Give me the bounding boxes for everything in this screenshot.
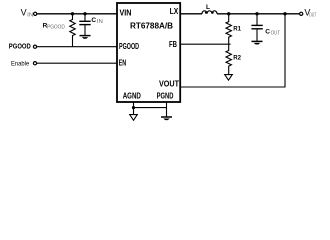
label RPGOOD bbox=[43, 23, 65, 31]
resistor R1 bbox=[226, 14, 231, 44]
label RT6788A/B bbox=[130, 22, 173, 31]
label COUT bbox=[265, 28, 280, 36]
ground COUT bbox=[252, 41, 263, 44]
label VIN bbox=[21, 8, 34, 19]
pin label EN bbox=[119, 59, 127, 68]
inductor L bbox=[202, 11, 217, 14]
ground CIN bbox=[80, 36, 91, 39]
svg-text:AGND: AGND bbox=[123, 92, 141, 101]
label CIN bbox=[91, 17, 103, 25]
wire VIN rail bbox=[37, 13, 117, 15]
op-amp U1 RT6788A/B box bbox=[117, 3, 180, 102]
node junction COUT top bbox=[255, 12, 258, 15]
svg-text:VOUT: VOUT bbox=[159, 79, 179, 88]
svg-text:FB: FB bbox=[169, 40, 177, 49]
svg-text:RT6788A/B: RT6788A/B bbox=[130, 22, 173, 31]
resistor RPGOOD bbox=[70, 14, 75, 47]
ground R2 bbox=[225, 75, 233, 81]
pin label AGND bbox=[123, 92, 141, 101]
node junction CIN top bbox=[83, 12, 86, 15]
terminal VOUT bbox=[300, 12, 303, 15]
label Enable bbox=[11, 60, 30, 67]
wire EN bbox=[37, 62, 117, 64]
wire PGND pin bbox=[166, 102, 168, 117]
svg-text:PGOOD: PGOOD bbox=[119, 42, 139, 51]
svg-text:VIN: VIN bbox=[120, 8, 132, 17]
svg-text:LX: LX bbox=[170, 7, 179, 16]
svg-text:Enable: Enable bbox=[11, 60, 30, 67]
pin label PGOOD bbox=[119, 42, 139, 51]
ground AGND bbox=[130, 115, 138, 121]
capacitor COUT bbox=[251, 14, 262, 41]
label R1 bbox=[233, 26, 241, 33]
terminal VIN bbox=[34, 12, 37, 15]
svg-text:EN: EN bbox=[119, 59, 127, 68]
svg-text:OUT: OUT bbox=[309, 12, 317, 18]
svg-text:IN: IN bbox=[97, 19, 103, 25]
svg-text:L: L bbox=[206, 4, 210, 11]
svg-text:V: V bbox=[21, 8, 27, 18]
label R2 bbox=[233, 54, 241, 61]
capacitor CIN bbox=[79, 14, 90, 35]
svg-text:OUT: OUT bbox=[271, 31, 281, 37]
pin label VIN bbox=[120, 8, 132, 17]
label PGOOD terminal bbox=[9, 44, 31, 51]
wire AGND pin bbox=[133, 102, 135, 115]
wire VOUT pin to rail bbox=[181, 14, 285, 87]
wire PGOOD bbox=[37, 46, 117, 48]
wire VOUT rail bbox=[217, 13, 299, 15]
node junction RPGOOD top bbox=[71, 12, 74, 15]
wire LX to inductor bbox=[181, 13, 202, 15]
pin label PGND bbox=[157, 92, 174, 101]
pin label FB bbox=[169, 40, 177, 49]
ground PGND bbox=[161, 117, 172, 120]
svg-text:C: C bbox=[91, 17, 96, 24]
svg-text:C: C bbox=[265, 28, 270, 35]
pin label VOUT bbox=[159, 79, 179, 88]
resistor R2 bbox=[226, 44, 231, 74]
svg-text:PGOOD: PGOOD bbox=[47, 25, 65, 31]
node junction R1 top bbox=[227, 12, 230, 15]
wire AGND to PGND bbox=[134, 107, 167, 109]
svg-text:PGND: PGND bbox=[157, 92, 174, 101]
terminal EN bbox=[33, 62, 36, 65]
svg-text:PGOOD: PGOOD bbox=[9, 44, 31, 51]
pin label LX bbox=[170, 7, 179, 16]
svg-text:R2: R2 bbox=[233, 54, 241, 61]
svg-text:R1: R1 bbox=[233, 26, 241, 33]
terminal PGOOD bbox=[33, 45, 36, 48]
label L bbox=[206, 4, 210, 11]
svg-text:IN: IN bbox=[27, 12, 33, 18]
wire FB bbox=[181, 43, 231, 45]
node junction VOUT branch bbox=[283, 12, 286, 15]
node junction AGND-PGND bbox=[132, 106, 135, 109]
label VOUT bbox=[304, 8, 316, 19]
